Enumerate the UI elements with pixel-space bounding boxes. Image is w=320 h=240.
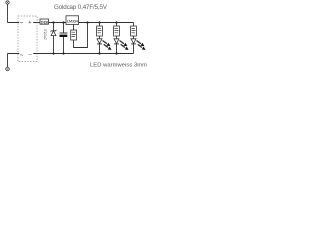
- node cap top junction: [62, 21, 64, 23]
- svg-text:~: ~: [20, 53, 24, 59]
- svg-text:+: +: [28, 20, 31, 26]
- wire Rset loop: [74, 23, 88, 48]
- LED D3: [116, 36, 118, 39]
- svg-text:~: ~: [20, 20, 24, 26]
- node branch2 bottom junction: [115, 52, 117, 54]
- resistor R4: [116, 23, 118, 27]
- resistor R3: [99, 23, 101, 27]
- LED D2: [99, 36, 101, 39]
- resistor R5: [133, 23, 135, 27]
- svg-text:1N58: 1N58: [41, 20, 48, 24]
- wire LM334 bottom pin: [73, 25, 75, 31]
- wire rail right: [79, 22, 134, 24]
- zener diode D1: [53, 23, 55, 31]
- node zener bottom junction: [52, 52, 54, 54]
- svg-text:Goldcap 0,47F/5,5V: Goldcap 0,47F/5,5V: [54, 4, 108, 11]
- node branch2 top junction: [115, 21, 117, 23]
- wire bottom rail: [8, 53, 134, 55]
- capacitor C1 Goldcap: [63, 23, 65, 33]
- op-amp U1 LM334: [66, 16, 79, 25]
- svg-text:LM334: LM334: [67, 19, 79, 24]
- node zener top junction: [52, 21, 54, 23]
- rectifier module dashed box: [18, 16, 37, 62]
- wire bottom terminal: [7, 54, 9, 68]
- resistor R1: [40, 19, 49, 24]
- node branch1 top junction: [98, 21, 100, 23]
- resistor R2 set: [71, 30, 77, 40]
- wire top rail left: [8, 22, 41, 24]
- node cap bottom junction: [62, 52, 64, 54]
- node Rset loop junction: [86, 21, 88, 23]
- terminal bottom-left: [6, 67, 10, 71]
- terminal top-left: [6, 1, 9, 4]
- node branch1 bottom junction: [98, 52, 100, 54]
- LED D2 arrows: [103, 41, 107, 44]
- svg-text:ZPD5,6: ZPD5,6: [44, 29, 48, 40]
- LED D4: [133, 36, 135, 39]
- node ~ bottom: [19, 51, 33, 56]
- node ~ top: [19, 20, 33, 25]
- LED D4 arrows: [137, 41, 141, 44]
- wire from top terminal down: [7, 5, 9, 23]
- LED D3 arrows: [120, 41, 124, 44]
- wire rail middle: [49, 22, 67, 24]
- svg-text:LED warmweiss 3mm: LED warmweiss 3mm: [90, 63, 147, 69]
